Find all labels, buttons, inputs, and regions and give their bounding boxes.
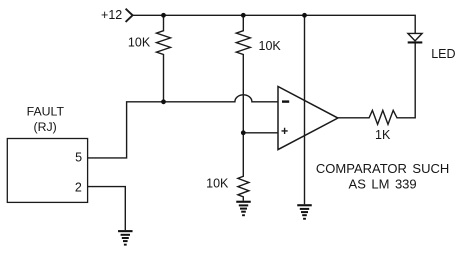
- svg-text:+12: +12: [101, 8, 122, 22]
- svg-text:LED: LED: [431, 47, 455, 61]
- svg-text:10K: 10K: [259, 39, 282, 53]
- svg-text:10K: 10K: [128, 36, 151, 50]
- svg-text:1K: 1K: [375, 128, 391, 142]
- svg-text:COMPARATOR SUCH: COMPARATOR SUCH: [316, 161, 449, 176]
- svg-text:FAULT: FAULT: [27, 105, 65, 119]
- svg-text:5: 5: [75, 150, 82, 164]
- svg-text:2: 2: [75, 180, 82, 194]
- svg-text:AS LM 339: AS LM 339: [349, 177, 417, 192]
- svg-text:(RJ): (RJ): [34, 120, 57, 134]
- svg-text:10K: 10K: [206, 177, 229, 191]
